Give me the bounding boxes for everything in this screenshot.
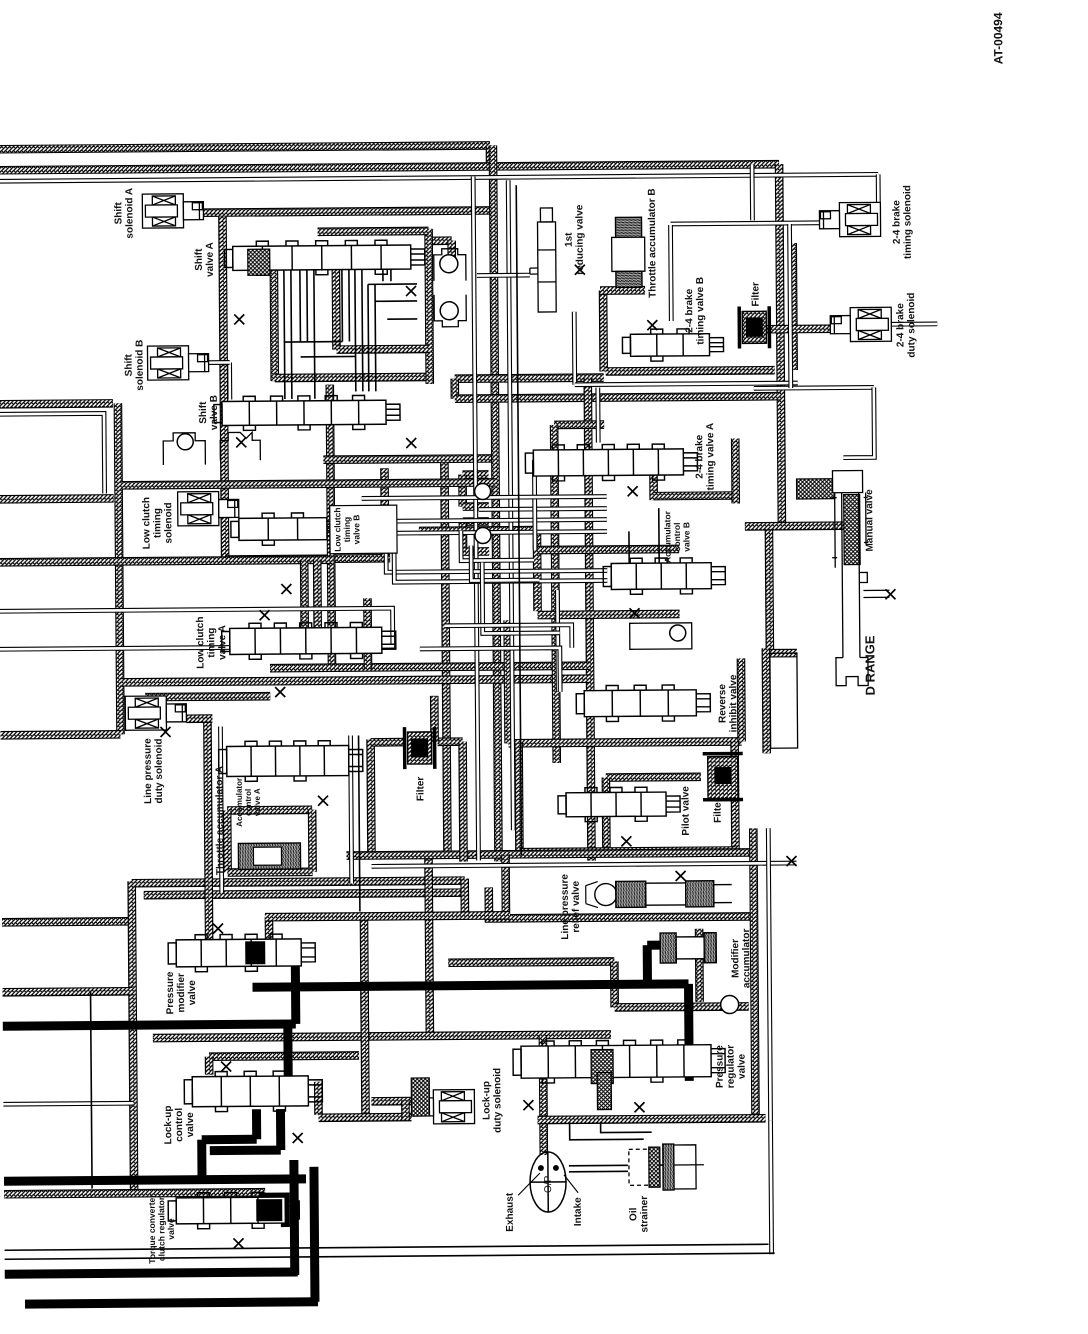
- shift valve B: [214, 395, 400, 430]
- wire: [643, 945, 652, 984]
- wire: [463, 547, 489, 556]
- exhaust X: [634, 1102, 644, 1112]
- wire: [501, 854, 510, 915]
- wire: [606, 772, 701, 781]
- check ball: [440, 255, 458, 273]
- right thin box near D range: [770, 653, 798, 748]
- torque converter clutch regulator valve: [168, 1192, 299, 1229]
- 2-4 brake timing solenoid: [819, 202, 880, 236]
- wire: [348, 269, 351, 342]
- wire: [790, 224, 791, 388]
- wire: [271, 1076, 288, 1085]
- wire: [695, 929, 704, 1002]
- reverse inhibit ball box: [630, 623, 692, 649]
- accumulator control valve B: [603, 558, 725, 595]
- wire: [458, 742, 468, 862]
- wire: [779, 164, 782, 526]
- wire: [371, 1097, 413, 1106]
- wire: [477, 273, 530, 278]
- check ball: [440, 302, 458, 320]
- wire: [318, 227, 429, 236]
- exhaust X: [221, 1061, 231, 1071]
- wire: [572, 312, 577, 385]
- wire: [209, 360, 230, 365]
- wire: [462, 470, 488, 479]
- wire: [471, 545, 539, 581]
- svg-text:O/P: O/P: [543, 1175, 554, 1193]
- wire: [374, 284, 377, 391]
- wire: [4, 1192, 265, 1194]
- exhaust X: [523, 1100, 533, 1110]
- wire: [788, 243, 798, 370]
- wire: [595, 388, 600, 443]
- wire: [283, 1024, 292, 1077]
- wire: [145, 692, 270, 702]
- svg-text:Throttle accumulator B: Throttle accumulator B: [647, 188, 659, 298]
- wire: [366, 739, 376, 855]
- filter: [703, 753, 743, 800]
- wire: [737, 658, 746, 741]
- wire: [3, 1024, 296, 1026]
- lock-up duty solenoid: [413, 1090, 474, 1124]
- wire: [538, 614, 680, 615]
- wire: [387, 318, 417, 320]
- wire: [768, 828, 770, 1120]
- wire: [361, 268, 364, 391]
- svg-text:Pilot valve: Pilot valve: [680, 786, 691, 836]
- svg-text:Line pressureduty solenoid: Line pressureduty solenoid: [143, 738, 166, 804]
- wire: [341, 269, 344, 342]
- wire: [300, 560, 309, 650]
- wire: [463, 502, 489, 511]
- throttle accumulator B coil: [615, 217, 641, 237]
- wire: [429, 229, 430, 384]
- wire: [455, 378, 604, 379]
- exhaust X: [621, 836, 631, 846]
- wire: [207, 719, 209, 953]
- wire: [197, 1140, 206, 1180]
- wire: [570, 1121, 644, 1140]
- wire: [438, 737, 463, 746]
- wire: [332, 266, 341, 350]
- check ball: [670, 625, 686, 641]
- wire: [419, 526, 537, 536]
- wire: [671, 223, 820, 224]
- svg-text:D RANGE: D RANGE: [862, 635, 877, 695]
- wire: [186, 714, 212, 723]
- throttle accumulator A coil: [238, 843, 300, 869]
- wire: [485, 916, 750, 918]
- wire: [323, 458, 495, 459]
- wire: [276, 1109, 285, 1150]
- 2-4 brake duty solenoid: [830, 307, 891, 341]
- wire: [731, 438, 740, 503]
- accumulator control valve A: [219, 740, 363, 781]
- wire: [599, 291, 608, 372]
- oil pump: [518, 1152, 578, 1212]
- exhaust X: [647, 320, 657, 330]
- filter: [404, 727, 434, 769]
- wire: [202, 1135, 257, 1144]
- exhaust X: [630, 608, 640, 618]
- wire: [684, 984, 694, 1081]
- wire: [371, 738, 405, 747]
- wire: [210, 1146, 281, 1156]
- wire: [375, 300, 417, 302]
- wire: [227, 362, 232, 399]
- label box low clutch timing valve B: [330, 505, 397, 554]
- wire: [346, 852, 749, 855]
- exhaust X: [676, 871, 686, 881]
- exhaust X: [233, 1238, 243, 1248]
- exhaust X: [213, 924, 223, 934]
- wire: [220, 727, 221, 893]
- shift valve A: [225, 240, 425, 276]
- oil strainer: [629, 1144, 704, 1191]
- wire: [0, 174, 878, 181]
- wire: [654, 491, 736, 500]
- exhaust X: [575, 265, 585, 275]
- wire: [132, 881, 134, 1191]
- wire: [270, 269, 279, 381]
- wire: [753, 828, 755, 1118]
- wire: [337, 345, 430, 354]
- exhaust X: [786, 856, 796, 866]
- wire: [428, 855, 429, 1036]
- check ball: [475, 527, 491, 543]
- wire: [606, 370, 775, 371]
- wire: [890, 322, 937, 327]
- wire: [132, 881, 465, 884]
- wire: [647, 941, 662, 950]
- wire: [25, 1302, 318, 1304]
- wire: [484, 887, 493, 922]
- wire: [222, 217, 225, 560]
- wire: [359, 735, 360, 911]
- wire: [0, 145, 490, 149]
- wire: [227, 806, 312, 815]
- wire: [554, 425, 557, 763]
- wire: [270, 666, 590, 669]
- wire: [482, 562, 560, 634]
- wire: [628, 531, 630, 563]
- wire: [330, 385, 332, 667]
- wire: [5, 1244, 769, 1250]
- wire: [5, 1253, 775, 1259]
- pilot valve: [558, 787, 680, 822]
- wire: [308, 810, 317, 872]
- svg-text:Throttle accumulator A: Throttle accumulator A: [214, 766, 226, 875]
- filter: [739, 306, 769, 348]
- svg-text:Manual valve: Manual valve: [864, 489, 875, 552]
- svg-text:Filter: Filter: [415, 777, 426, 802]
- wire: [843, 387, 875, 457]
- wire: [299, 269, 302, 342]
- wire: [223, 810, 232, 872]
- exhaust X: [885, 589, 895, 599]
- wire: [205, 1057, 214, 1075]
- ball port boxes below shift valve B: [163, 432, 260, 465]
- wire: [382, 268, 384, 281]
- wire: [354, 268, 357, 391]
- wire: [265, 917, 274, 947]
- wire: [289, 1160, 299, 1275]
- pressure regulator valve: [513, 1040, 725, 1084]
- wire: [420, 648, 560, 693]
- wire: [362, 497, 607, 499]
- wire: [118, 403, 121, 734]
- wire: [575, 383, 798, 385]
- wire: [390, 268, 392, 281]
- shift solenoid A: [142, 194, 203, 228]
- wire: [372, 863, 797, 866]
- wire: [429, 236, 452, 245]
- exhaust X: [318, 796, 328, 806]
- wire: [265, 915, 510, 917]
- svg-text:AT-00494: AT-00494: [991, 12, 1005, 64]
- wire: [275, 377, 430, 378]
- wire: [284, 341, 342, 343]
- wire: [3, 1103, 133, 1104]
- exhaust X: [628, 486, 638, 496]
- 1st reducing valve: [529, 208, 556, 312]
- wire: [252, 947, 295, 956]
- wire: [745, 521, 844, 530]
- low clutch timing solenoid: [178, 491, 239, 525]
- wire: [209, 1055, 359, 1056]
- wire: [615, 1006, 749, 1007]
- wire: [363, 598, 372, 669]
- wire: [514, 743, 523, 855]
- wire: [444, 463, 447, 855]
- wire: [600, 286, 645, 295]
- wire: [516, 185, 521, 855]
- shift solenoid B: [147, 346, 208, 380]
- exhaust X: [234, 314, 244, 324]
- wire: [486, 145, 495, 170]
- manual valve: [831, 470, 890, 685]
- wire: [386, 542, 607, 573]
- exhaust X: [281, 584, 291, 594]
- wire: [314, 1167, 315, 1302]
- wire: [380, 468, 389, 556]
- exhaust X: [260, 610, 270, 620]
- exhaust X: [236, 437, 246, 447]
- wire: [319, 1113, 412, 1122]
- reverse inhibit valve: [576, 685, 710, 722]
- wire: [458, 475, 467, 507]
- check ball: [177, 434, 193, 450]
- wire: [473, 177, 478, 861]
- wire: [1, 730, 121, 740]
- wire: [479, 509, 607, 510]
- exhaust X: [406, 286, 416, 296]
- wire: [601, 1121, 652, 1132]
- wire: [461, 530, 534, 561]
- wire: [754, 385, 874, 391]
- wire: [602, 778, 611, 855]
- wire: [554, 420, 604, 429]
- wire: [122, 482, 496, 485]
- wire: [351, 736, 352, 884]
- svg-text:Filter: Filter: [713, 798, 724, 823]
- wire: [508, 180, 513, 830]
- wire: [314, 1082, 323, 1115]
- wire: [533, 530, 542, 611]
- wire: [394, 549, 607, 583]
- wire: [0, 608, 393, 649]
- wire: [770, 649, 797, 658]
- wire: [314, 269, 315, 399]
- wire: [228, 868, 313, 877]
- wire: [144, 893, 465, 896]
- wire: [91, 992, 93, 1189]
- 2-4 brake timing valve A: [525, 444, 697, 481]
- wire: [658, 508, 660, 563]
- wire: [430, 696, 439, 742]
- wire: [0, 494, 114, 504]
- wire: [538, 1118, 766, 1120]
- wire: [509, 741, 742, 743]
- wire: [253, 984, 689, 987]
- wire: [0, 413, 105, 494]
- wire: [455, 396, 781, 399]
- wire: [588, 378, 592, 861]
- wire: [367, 284, 370, 391]
- wire: [765, 526, 775, 653]
- wire: [771, 1120, 772, 1254]
- wire: [448, 961, 614, 962]
- wire: [537, 549, 679, 550]
- wire: [750, 164, 755, 220]
- crosshatched blocks: [248, 249, 270, 275]
- pressure modifier valve: [168, 934, 315, 972]
- low clutch timing valve A: [222, 622, 396, 659]
- svg-text:Exhaust: Exhaust: [505, 1192, 516, 1232]
- wire: [460, 879, 469, 916]
- wire: [0, 399, 113, 409]
- wire: [284, 269, 285, 399]
- wire: [259, 1197, 285, 1227]
- wire: [368, 283, 417, 285]
- modifier accumulator coil: [660, 933, 716, 963]
- wire: [153, 1034, 611, 1038]
- wire: [503, 620, 513, 743]
- wire: [459, 522, 468, 552]
- wire: [225, 558, 390, 559]
- wire: [329, 520, 607, 522]
- wire: [3, 991, 133, 992]
- wire: [660, 1164, 664, 1166]
- wire: [445, 625, 572, 649]
- wire: [668, 225, 674, 321]
- wire: [447, 241, 456, 263]
- wire: [301, 355, 356, 357]
- black spool blocks: [245, 941, 265, 964]
- wire: [519, 851, 735, 853]
- wire: [0, 560, 332, 563]
- check ball: [721, 995, 739, 1013]
- svg-text:Intake: Intake: [573, 1197, 584, 1226]
- wire: [120, 679, 590, 683]
- ball ports right of shift valve A: [434, 249, 467, 327]
- wire: [401, 1101, 410, 1119]
- wire: [766, 324, 835, 333]
- wire: [252, 1109, 261, 1139]
- wire: [248, 1076, 265, 1085]
- wire: [291, 269, 292, 399]
- wire: [569, 1164, 628, 1166]
- wire: [4, 1179, 306, 1181]
- wire: [0, 164, 779, 170]
- svg-text:Line pressurerelief valve: Line pressurerelief valve: [560, 873, 583, 939]
- wire: [649, 469, 658, 500]
- wire: [762, 648, 771, 753]
- exhaust X: [275, 687, 285, 697]
- wire: [5, 1272, 298, 1274]
- wire: [203, 210, 493, 212]
- wire: [365, 991, 366, 1121]
- line pressure duty solenoid: [125, 696, 186, 730]
- wire: [730, 742, 739, 851]
- check ball: [475, 483, 491, 499]
- wire: [610, 961, 619, 1007]
- wire: [532, 460, 538, 550]
- wire: [306, 269, 309, 342]
- wire: [360, 917, 370, 1041]
- wire: [463, 517, 489, 526]
- lock-up control valve: [184, 1071, 322, 1112]
- line pressure relief valve spring: [586, 881, 732, 908]
- wire: [313, 560, 322, 642]
- exhaust X: [293, 1133, 303, 1143]
- wire: [450, 379, 459, 399]
- wire: [539, 1035, 549, 1155]
- 2-4 brake timing valve B: [622, 329, 723, 362]
- wire: [349, 532, 607, 534]
- wire: [2, 917, 129, 927]
- svg-text:Filter: Filter: [750, 282, 761, 307]
- exhaust X: [406, 438, 416, 448]
- low clutch timing valve B: [231, 513, 341, 546]
- wire: [569, 1170, 628, 1172]
- wire: [291, 952, 301, 1024]
- exhaust X: [160, 727, 170, 737]
- wire: [555, 590, 561, 691]
- wire: [876, 174, 881, 203]
- wire: [493, 145, 499, 861]
